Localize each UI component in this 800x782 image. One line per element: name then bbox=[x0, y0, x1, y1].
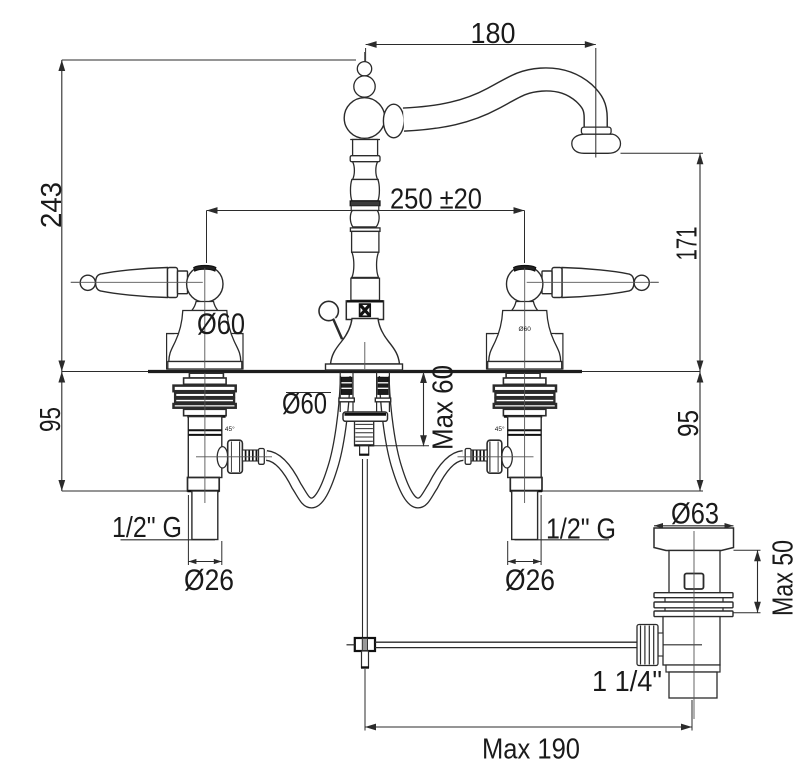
left inlet valve flange slab 3 bbox=[175, 399, 234, 403]
right inlet valve flange slab 3 bbox=[495, 399, 554, 403]
deck extension line left bbox=[62, 371, 148, 373]
right inlet valve threaded nipple bbox=[471, 450, 487, 461]
drain flange bbox=[654, 528, 734, 551]
right inlet valve shank washer top bbox=[506, 373, 540, 378]
coupling lower tip bbox=[362, 651, 369, 668]
dimension diameter 26 right bbox=[507, 541, 509, 565]
left handle neck below ball bbox=[192, 302, 218, 311]
spout finial mid ball bbox=[354, 76, 375, 97]
left inlet valve tail step bbox=[188, 478, 220, 492]
threaded stub below bracket bbox=[355, 421, 374, 446]
pop-up rod knob bbox=[319, 301, 338, 320]
svg-text:243: 243 bbox=[36, 182, 68, 228]
left handle lever grip bbox=[96, 268, 168, 298]
left handle ferrule band outer bbox=[168, 268, 178, 298]
svg-text:1/2" G: 1/2" G bbox=[546, 514, 616, 546]
left inlet valve washer C bbox=[184, 409, 227, 415]
svg-text:Ø60: Ø60 bbox=[197, 308, 245, 341]
column section B bbox=[351, 278, 380, 300]
left handle grip end centerline tick bbox=[71, 281, 79, 283]
center body plinth bbox=[326, 364, 403, 370]
right supply hose outline bbox=[267, 376, 346, 503]
right inlet valve pipe top edge bbox=[504, 416, 542, 418]
right inlet valve side boss bbox=[502, 447, 513, 468]
left inlet valve collar bbox=[259, 449, 265, 465]
drain tail step bbox=[666, 665, 720, 672]
left escutcheon escutcheon envelope box bbox=[167, 334, 243, 370]
left handle grip end ball bbox=[80, 275, 95, 290]
drain centerline bbox=[693, 531, 695, 719]
left escutcheon envelope corner ticks bbox=[167, 333, 175, 335]
243 top extension bbox=[62, 59, 356, 61]
horizontal drain rod bbox=[375, 641, 637, 643]
column white band bbox=[351, 206, 379, 211]
spout arm tube fill bbox=[404, 79, 596, 130]
right handle ferrule band inner bbox=[542, 271, 552, 294]
drain side hole bbox=[685, 574, 704, 590]
right escutcheon envelope corner ticks bbox=[487, 333, 495, 335]
right escutcheon escutcheon centerline bbox=[524, 268, 526, 368]
left inlet valve port centerline bbox=[196, 456, 272, 458]
svg-text:1 1/4": 1 1/4" bbox=[592, 666, 662, 698]
left inlet valve flange slab 2 bbox=[175, 393, 234, 397]
95 right bottom extension bbox=[542, 490, 703, 492]
left inlet valve pipe joint line 1 bbox=[188, 429, 222, 431]
right inlet valve port centerline bbox=[458, 456, 534, 458]
right handle ball joint bbox=[507, 266, 543, 302]
column barrel bbox=[350, 180, 379, 201]
250 extension left bbox=[206, 211, 208, 264]
left inlet valve pipe top edge bbox=[187, 416, 225, 418]
dimension 95 right bbox=[699, 372, 701, 492]
Max 50 bottom extension bbox=[733, 612, 761, 614]
deck / mounting surface line bbox=[148, 370, 582, 373]
svg-text:171: 171 bbox=[672, 227, 704, 261]
right handle grip end centerline tick bbox=[651, 281, 659, 283]
column ring 2 bbox=[350, 228, 380, 232]
spout junction knob bbox=[383, 104, 404, 138]
Max 190 right extension bbox=[691, 700, 693, 731]
left inlet valve step bottom bold bbox=[188, 490, 220, 492]
180 extension right / outlet centerline bbox=[595, 48, 597, 158]
svg-text:250 ±20: 250 ±20 bbox=[390, 184, 482, 216]
spout dome bbox=[344, 98, 385, 139]
Max 190 left extension bbox=[364, 669, 366, 731]
svg-text:1/2" G: 1/2" G bbox=[112, 512, 182, 544]
drain tailpiece bbox=[669, 672, 717, 698]
column section 1 bbox=[353, 140, 378, 156]
spout finial small ball bbox=[357, 62, 371, 76]
svg-text:Max 190: Max 190 bbox=[482, 734, 580, 766]
left inlet valve pipe joint line 2 bbox=[188, 434, 222, 436]
right inlet valve valve pipe bbox=[508, 417, 542, 478]
column dark ring (joint) bbox=[350, 201, 380, 206]
Max 60 bottom extension bbox=[371, 445, 429, 447]
right escutcheon escutcheon bell bbox=[489, 311, 561, 362]
svg-text:Max 60: Max 60 bbox=[428, 365, 460, 450]
right inlet valve tail pipe bbox=[512, 491, 538, 540]
dimension 171 right bbox=[699, 153, 701, 371]
dimension Max 60 bbox=[423, 372, 425, 446]
right inlet valve flange slab 1 bbox=[494, 386, 556, 392]
svg-text:95: 95 bbox=[673, 410, 705, 437]
dimension 95 left bbox=[61, 372, 63, 492]
drain upper body bbox=[669, 551, 720, 593]
right mounting stud washer bbox=[375, 398, 390, 402]
svg-text:95: 95 bbox=[35, 407, 67, 432]
column hourglass bbox=[352, 252, 379, 277]
left inlet valve side boss bbox=[217, 447, 228, 468]
svg-text:45°: 45° bbox=[225, 425, 235, 433]
left inlet valve shank washer top bbox=[189, 373, 223, 378]
column bulge bbox=[350, 211, 379, 227]
left supply hose fill bbox=[384, 376, 463, 503]
faucet centerline bbox=[364, 52, 366, 368]
left escutcheon escutcheon bell bbox=[169, 311, 241, 362]
171 top extension bbox=[621, 152, 704, 154]
cross (hot/cold) square bbox=[360, 304, 371, 316]
svg-text:Max 50: Max 50 bbox=[768, 540, 800, 616]
svg-text:Ø26: Ø26 bbox=[184, 564, 234, 597]
right mounting stud bbox=[376, 372, 378, 412]
svg-text:Ø60: Ø60 bbox=[519, 326, 532, 333]
left mounting stud washer bbox=[339, 398, 354, 402]
pop-up vertical rod bbox=[362, 459, 364, 638]
knurled adjuster shaft bbox=[658, 633, 663, 656]
right inlet valve tail bottom edge / thread leader bbox=[515, 539, 610, 541]
rod line inside drain body bbox=[663, 644, 702, 646]
left inlet valve hex nut bbox=[228, 440, 243, 473]
left inlet valve flange slab 4 bbox=[174, 404, 236, 408]
right handle ball cap bbox=[514, 265, 536, 271]
dimension diameter 26 left bbox=[221, 541, 223, 565]
dimension Max 190 bbox=[365, 726, 692, 728]
right inlet valve flange slab 4 bbox=[494, 404, 556, 408]
right mounting stud nut bbox=[378, 377, 388, 394]
right inlet valve collar bbox=[465, 449, 471, 465]
pop-up rod link bbox=[334, 319, 343, 340]
left mounting stud bbox=[339, 372, 341, 412]
left inlet valve tail bottom edge / thread leader bbox=[121, 539, 216, 541]
Max 50 top extension bbox=[734, 549, 761, 551]
body block with cross symbol bbox=[346, 301, 383, 320]
dimension 250 +-20 bbox=[207, 210, 525, 212]
center body bell bbox=[331, 319, 400, 365]
drain locknut ring 2 bbox=[654, 602, 733, 608]
right inlet valve pipe joint line 1 bbox=[508, 429, 542, 431]
right handle ferrule band outer bbox=[552, 268, 562, 298]
left supply hose outline bbox=[384, 376, 463, 503]
left handle handle centerline bbox=[71, 281, 203, 283]
dimension Max 50 bbox=[757, 550, 759, 612]
left inlet valve valve pipe bbox=[188, 417, 222, 478]
svg-text:45°: 45° bbox=[495, 425, 505, 433]
dimension 243 left bbox=[61, 60, 63, 372]
diameter 60 leader line bbox=[286, 392, 331, 394]
right inlet valve tail step bbox=[510, 478, 542, 492]
drain locknut ring 1 bbox=[654, 593, 733, 598]
deck extension line right bbox=[582, 371, 700, 373]
right supply hose fill bbox=[267, 376, 346, 503]
left inlet valve washer B bbox=[184, 378, 227, 384]
left handle ferrule band inner bbox=[178, 271, 188, 294]
column section A bbox=[352, 231, 379, 252]
left handle ball joint bbox=[187, 266, 223, 302]
dome truncation line bbox=[350, 139, 380, 141]
right inlet valve pipe joint line 2 bbox=[508, 434, 542, 436]
left inlet valve threaded nipple bbox=[242, 450, 258, 461]
right inlet valve step bottom bold bbox=[510, 490, 542, 492]
column ring 1 bbox=[350, 156, 380, 162]
right escutcheon escutcheon envelope box bbox=[487, 334, 563, 370]
spout outlet bell bbox=[572, 134, 621, 153]
mounting bracket plate bbox=[343, 412, 388, 421]
spout arm tube outline bbox=[404, 79, 596, 128]
left inlet valve tail pipe bbox=[192, 491, 218, 540]
right inlet valve washer B bbox=[503, 378, 546, 384]
left inlet valve flange slab 1 bbox=[174, 386, 236, 392]
right handle handle centerline bbox=[527, 281, 659, 283]
left inlet valve centerline bbox=[204, 373, 206, 503]
knurled adjuster knob bbox=[637, 625, 658, 666]
drain lower body bbox=[663, 617, 720, 665]
right inlet valve flange slab 2 bbox=[495, 393, 554, 397]
left handle ball cap bbox=[194, 265, 216, 271]
95 left bottom extension bbox=[62, 490, 188, 492]
drain locknut ring 3 bbox=[654, 611, 733, 617]
right inlet valve centerline bbox=[524, 373, 526, 503]
180 extension left bbox=[365, 48, 367, 62]
right handle neck below ball bbox=[512, 302, 538, 311]
250 extension right bbox=[524, 211, 526, 264]
center body centerline bbox=[364, 342, 366, 369]
right inlet valve washer C bbox=[503, 409, 546, 415]
right handle grip end ball bbox=[634, 275, 649, 290]
left mounting stud nut bbox=[341, 377, 351, 394]
stub tip bbox=[360, 446, 369, 455]
left escutcheon escutcheon centerline bbox=[204, 268, 206, 368]
drain body between rings bbox=[664, 598, 666, 602]
right inlet valve hex nut bbox=[487, 440, 502, 473]
coupling left stub bbox=[347, 644, 355, 646]
dimension 180 top bbox=[366, 44, 596, 46]
column waist bbox=[353, 162, 378, 180]
right handle lever grip bbox=[562, 268, 634, 298]
right escutcheon escutcheon plinth bbox=[488, 362, 562, 370]
svg-text:180: 180 bbox=[471, 18, 516, 50]
spout outlet ring bbox=[581, 127, 611, 134]
svg-text:Ø26: Ø26 bbox=[505, 564, 555, 597]
left escutcheon escutcheon plinth bbox=[168, 362, 242, 370]
rod coupling block bbox=[355, 638, 375, 651]
